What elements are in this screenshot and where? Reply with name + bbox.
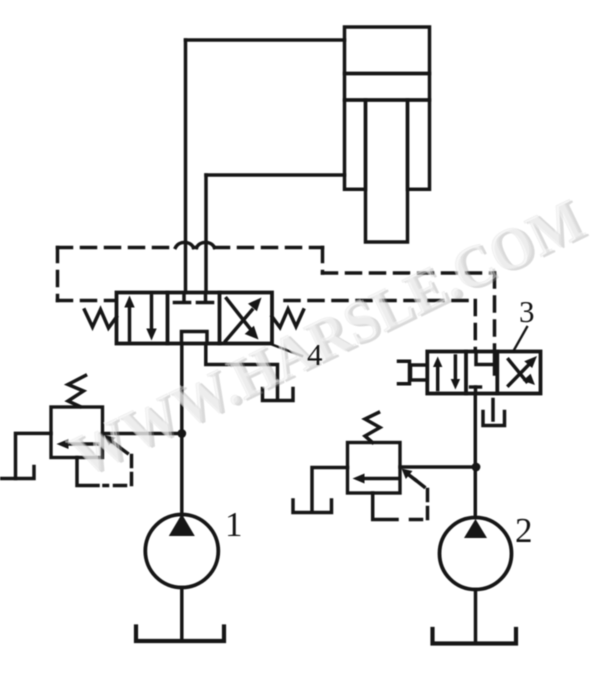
relief valve F2 arrow [362,477,399,481]
pilot dashed to valve4 left [58,299,115,303]
valve U4 divider left [166,293,170,344]
pilot dashed mid horizontal [323,271,495,275]
crossing hop A [176,242,194,247]
relief valve F1 pilot dashes [119,447,131,456]
valve U4 port B stub [204,294,208,301]
relief valve F2 pilot dashes [416,480,428,490]
P line valve3 to pump2 [474,394,478,518]
T drain line valve4 [206,344,278,399]
svg-text:4: 4 [307,337,323,372]
svg-text:1: 1 [225,505,243,544]
crossing link [194,246,197,250]
relief valve F1 pilot arrow [105,435,116,446]
valve U4 left spring [85,310,117,329]
valve U4 right spring [272,309,304,328]
pilot dashed from valve4 right [285,299,475,303]
cylinder body (cap) [345,27,430,74]
relief valve F1 inlet line [103,432,182,436]
pilot dashed drop to valve3 port b [493,273,497,352]
svg-text:3: 3 [519,294,535,329]
valve U4 port A stub [182,294,186,301]
cylinder barrel right wall [408,100,430,189]
svg-text:WWW.HARSLE.COM: WWW.HARSLE.COM [61,186,594,489]
valve U3 divider right [495,352,499,394]
valve U3 down arrow [454,356,458,383]
P line pump1 to valve4 [180,344,184,516]
relief valve F2 inlet line [400,465,476,469]
pump P2 suction line [474,590,478,644]
pilot dashed top line right [215,246,323,250]
tank T3 [483,412,505,426]
junction dot relief1 [177,429,186,438]
pilot dashed right step [321,248,325,274]
crossing hop B [197,242,215,247]
tank small T1 [263,389,294,401]
valve U4 label pointer [272,345,302,357]
valve U4 down arrow [150,296,154,333]
relief valve F2 body [348,443,401,494]
watermark [58,184,596,492]
wire vertical B [204,175,208,293]
cylinder piston band [345,74,430,101]
valve U3 body [427,352,540,394]
junction dot relief2 [472,463,481,472]
tank pump1 [136,627,224,642]
pilot dashed drop to valve3 port a [474,301,478,352]
cylinder barrel left wall [345,100,366,189]
valve U3 actuator box [411,365,428,380]
pump P1 suction line [180,588,184,642]
valve U3 divider left [464,352,468,394]
relief valve F1 arrow [66,442,98,446]
wire rod-side [206,173,345,177]
svg-text:2: 2 [515,511,533,550]
relief valve F1 drain hook [77,458,98,486]
tank TL1 [1,467,34,479]
relief valve F2 pilot arrow [402,469,413,480]
valve U3 drain stub [491,400,495,421]
pump P2 [440,518,512,590]
tank pump2 [433,629,517,644]
valve U3 label pointer [514,327,527,350]
cylinder rod [366,100,408,242]
valve U3 cross arrow 1 [509,366,529,386]
valve U3 blocked P port [471,385,481,388]
valve U4 center bypass notch [182,332,208,344]
pilot dashed top line [58,246,176,250]
relief valve F2 tank port [312,468,348,512]
relief valve F2 drain loop [373,493,397,520]
valve U4 cross arrow 2 [227,299,251,329]
valve U4 divider right [218,293,222,344]
relief valve F1 spring [68,376,86,407]
valve U4 cross arrow 1 [226,310,253,341]
valve U4 body [117,293,273,344]
relief valve F1 body [51,407,103,458]
tank TL2 [293,500,332,513]
relief valve F2 spring [365,413,380,443]
wire cap-side top [186,38,345,42]
valve U3 center channel [476,352,495,375]
pilot dashed left leg [56,248,60,301]
valve U3 up arrow [436,363,440,390]
relief valve F1 tank port [16,433,52,478]
pump P1 [145,515,218,588]
valve U4 up arrow [128,303,132,340]
valve U3 cross arrow 2 [509,360,527,382]
wire vertical A [184,40,188,293]
valve U3 actuator bracket [399,361,410,383]
